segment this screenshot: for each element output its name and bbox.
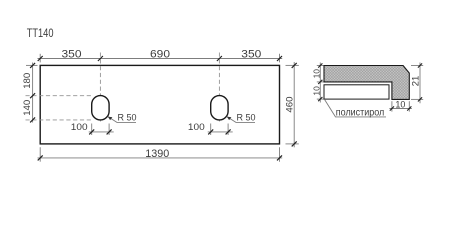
svg-text:R 50: R 50 xyxy=(237,113,256,123)
svg-text:10: 10 xyxy=(311,86,321,96)
tick section left y100 xyxy=(318,97,322,101)
section left ext mid xyxy=(317,81,324,83)
centerline hole 2 vertical xyxy=(218,53,220,122)
svg-text:R 50: R 50 xyxy=(118,113,137,123)
bottom extension line left xyxy=(39,147,41,162)
svg-text:ТТ140: ТТ140 xyxy=(27,26,54,40)
tick hole2 left xyxy=(208,129,213,134)
right extension line top xyxy=(286,64,299,66)
leader polystyrene xyxy=(324,99,386,117)
svg-text:100: 100 xyxy=(71,122,88,132)
hole2 width dimension line 100 xyxy=(208,131,233,133)
svg-text:350: 350 xyxy=(241,48,261,60)
leader arrow R50 hole2 xyxy=(227,117,232,121)
hole2 extension right xyxy=(227,124,229,136)
left dimension line xyxy=(32,63,34,123)
tick hole2 right xyxy=(226,129,231,134)
svg-text:10: 10 xyxy=(311,69,321,79)
tick 1390 left xyxy=(38,155,43,160)
svg-text:100: 100 xyxy=(188,122,205,132)
section bottom dimension line 10 xyxy=(389,108,411,110)
section left dimension line xyxy=(319,63,321,103)
tick 460 top xyxy=(292,63,297,68)
tick top x219 xyxy=(217,56,222,61)
tick 1390 right xyxy=(277,155,282,160)
section left ext top xyxy=(317,65,324,67)
hole1 width dimension line 100 xyxy=(89,131,114,133)
oval cutout 2 xyxy=(211,96,228,120)
svg-text:690: 690 xyxy=(150,48,170,60)
svg-text:180: 180 xyxy=(22,73,33,89)
svg-text:полистирол: полистирол xyxy=(336,107,385,118)
section right dimension line 21 xyxy=(419,63,421,104)
tick top x279 xyxy=(277,56,282,61)
tick section left y65 xyxy=(318,63,322,67)
tick section10 left xyxy=(390,106,394,110)
svg-text:21: 21 xyxy=(411,76,422,87)
leader R50 hole2 xyxy=(227,117,255,123)
main panel outline xyxy=(40,65,279,143)
leader arrow R50 hole1 xyxy=(108,117,113,121)
oval cutout 1 xyxy=(92,96,109,120)
hole2 extension left xyxy=(210,124,212,136)
svg-text:140: 140 xyxy=(22,100,33,116)
tick top x40 xyxy=(38,56,43,61)
tick top x100 xyxy=(98,56,103,61)
svg-text:460: 460 xyxy=(284,97,295,113)
top dimension line xyxy=(38,58,283,60)
section left ext bottom xyxy=(317,98,324,100)
tick 21 bottom xyxy=(418,97,422,101)
right extension line bottom xyxy=(286,143,299,145)
svg-text:350: 350 xyxy=(62,48,82,60)
bottom extension line right xyxy=(279,147,281,162)
svg-text:10: 10 xyxy=(395,99,405,109)
bottom dimension line 1390 xyxy=(38,157,283,159)
svg-text:1390: 1390 xyxy=(145,148,169,160)
tick hole1 right xyxy=(107,129,112,134)
hole1 extension left xyxy=(91,124,93,136)
top extension line left xyxy=(39,54,41,63)
dashed line hole bottom level xyxy=(26,119,92,121)
tick hole1 left xyxy=(89,129,94,134)
dashed line hole top level xyxy=(26,95,92,97)
tick section10 right xyxy=(407,106,411,110)
tick 460 bottom xyxy=(292,141,297,146)
top extension line right xyxy=(279,54,281,63)
leader R50 hole1 xyxy=(108,117,136,123)
section hatched top and edge band xyxy=(324,66,409,100)
section bottom ext right xyxy=(408,101,410,111)
left extension line top xyxy=(26,64,38,66)
tick left y119.9 xyxy=(30,117,35,122)
centerline hole 1 vertical xyxy=(99,53,101,122)
tick left y65 xyxy=(30,63,35,68)
hole1 extension right xyxy=(108,124,110,136)
tick 21 top xyxy=(418,63,422,67)
section bottom ext left xyxy=(391,101,393,111)
tick section left y82 xyxy=(318,80,322,84)
section right ext top xyxy=(411,65,423,67)
tick left y95.7 xyxy=(30,93,35,98)
section polystyrene core xyxy=(324,85,389,99)
section right ext bottom xyxy=(411,98,423,100)
right dimension line 460 xyxy=(293,62,295,147)
